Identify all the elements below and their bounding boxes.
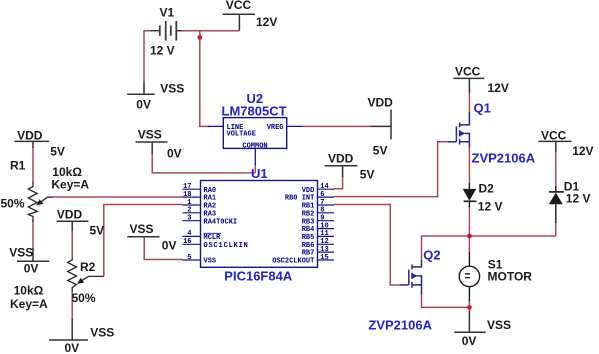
svg-text:VSS: VSS (487, 318, 511, 332)
svg-text:14: 14 (320, 183, 328, 191)
svg-text:VDD: VDD (368, 96, 394, 110)
svg-text:MOTOR: MOTOR (488, 270, 533, 284)
svg-text:LM7805CT: LM7805CT (222, 104, 287, 119)
svg-text:OSC2CLKOUT: OSC2CLKOUT (272, 258, 314, 266)
svg-text:7: 7 (320, 199, 324, 207)
svg-text:RB5: RB5 (302, 234, 315, 242)
svg-text:50%: 50% (1, 196, 25, 210)
svg-text:RB7: RB7 (302, 250, 315, 258)
svg-text:VSS: VSS (130, 222, 154, 236)
svg-text:RB0 INT: RB0 INT (285, 195, 314, 203)
svg-text:R2: R2 (80, 260, 96, 274)
svg-text:12V: 12V (488, 81, 509, 95)
svg-text:5V: 5V (373, 144, 388, 158)
svg-text:5V: 5V (90, 223, 105, 237)
svg-text:VCC: VCC (541, 129, 567, 143)
svg-text:10kΩ: 10kΩ (14, 284, 44, 298)
svg-text:12 V: 12 V (478, 199, 503, 213)
svg-text:VDD: VDD (57, 208, 83, 222)
svg-text:Q1: Q1 (474, 101, 491, 116)
svg-text:VCC: VCC (455, 65, 481, 79)
svg-text:D2: D2 (479, 182, 495, 196)
svg-text:V1: V1 (160, 6, 175, 20)
svg-text:2: 2 (187, 207, 191, 215)
svg-text:17: 17 (183, 183, 191, 191)
svg-text:4: 4 (187, 230, 191, 238)
svg-text:VREG: VREG (267, 124, 284, 132)
svg-text:RA2: RA2 (204, 203, 217, 211)
svg-text:Q2: Q2 (423, 248, 440, 263)
svg-text:VSS: VSS (90, 326, 114, 340)
svg-text:11: 11 (320, 230, 328, 238)
svg-text:1: 1 (187, 199, 191, 207)
svg-text:VDD: VDD (302, 187, 315, 195)
svg-text:PIC16F84A: PIC16F84A (224, 268, 293, 283)
svg-text:5V: 5V (50, 144, 65, 158)
svg-text:RA0: RA0 (204, 187, 217, 195)
svg-text:0V: 0V (24, 262, 39, 276)
svg-text:50%: 50% (72, 291, 96, 305)
svg-text:0V: 0V (167, 146, 182, 160)
svg-text:COMMON: COMMON (242, 143, 267, 151)
svg-text:RB1: RB1 (302, 203, 315, 211)
svg-text:RA4T0CKI: RA4T0CKI (204, 218, 238, 226)
svg-text:VCC: VCC (226, 0, 252, 12)
svg-text:0V: 0V (65, 341, 80, 354)
svg-text:9: 9 (320, 215, 324, 223)
svg-text:12 V: 12 V (566, 192, 591, 206)
svg-text:8: 8 (320, 207, 324, 215)
svg-text:12V: 12V (256, 15, 277, 29)
svg-text:12: 12 (320, 238, 328, 246)
svg-text:OSC1CLKIN: OSC1CLKIN (204, 242, 249, 250)
svg-text:5V: 5V (360, 168, 375, 182)
svg-text:12 V: 12 V (150, 44, 175, 58)
svg-text:RB4: RB4 (302, 226, 315, 234)
svg-text:MCLR: MCLR (204, 234, 222, 242)
svg-text:12V: 12V (572, 144, 593, 158)
svg-text:VSS: VSS (9, 246, 33, 260)
svg-text:0V: 0V (136, 98, 151, 112)
svg-text:RB6: RB6 (302, 242, 315, 250)
svg-text:VDD: VDD (17, 129, 43, 143)
svg-text:R1: R1 (10, 158, 26, 172)
svg-text:13: 13 (320, 246, 328, 254)
svg-text:0V: 0V (462, 334, 477, 348)
svg-text:15: 15 (320, 254, 328, 262)
svg-text:U1: U1 (251, 166, 268, 181)
svg-text:RA3: RA3 (204, 210, 217, 218)
svg-text:VSS: VSS (204, 258, 217, 266)
svg-text:6: 6 (320, 191, 324, 199)
svg-text:0V: 0V (162, 239, 177, 253)
svg-text:VOLTAGE: VOLTAGE (227, 131, 256, 139)
svg-text:Key=A: Key=A (51, 177, 89, 191)
svg-text:10: 10 (320, 222, 328, 230)
svg-text:16: 16 (183, 238, 191, 246)
svg-text:RA1: RA1 (204, 195, 217, 203)
svg-text:VSS: VSS (138, 128, 162, 142)
svg-text:VSS: VSS (160, 82, 184, 96)
svg-text:ZVP2106A: ZVP2106A (472, 150, 536, 165)
svg-text:5: 5 (187, 254, 191, 262)
svg-text:VDD: VDD (328, 152, 354, 166)
svg-text:3: 3 (187, 215, 191, 223)
svg-text:ZVP2106A: ZVP2106A (368, 318, 432, 333)
svg-text:18: 18 (183, 191, 191, 199)
svg-text:Key=A: Key=A (10, 297, 48, 311)
svg-text:RB3: RB3 (302, 218, 315, 226)
svg-text:RB2: RB2 (302, 210, 315, 218)
